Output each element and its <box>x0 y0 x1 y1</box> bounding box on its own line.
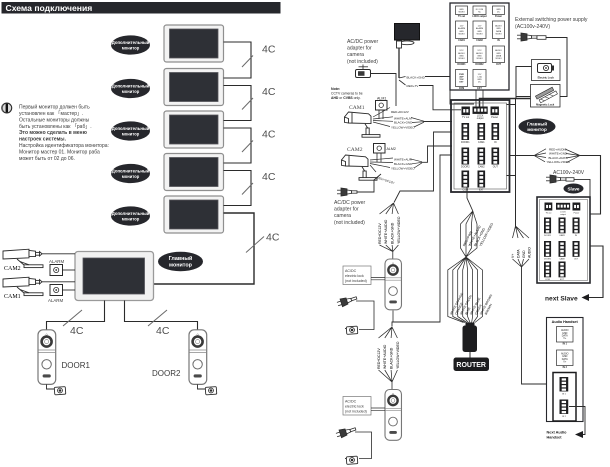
svg-text:RED+DC12V: RED+DC12V <box>377 348 381 369</box>
TV cable connector <box>397 41 402 78</box>
handset pinout IN 1 <box>557 327 574 346</box>
connector EXT (main box) <box>478 171 486 192</box>
svg-text:AUDIO: AUDIO <box>495 49 502 52</box>
svg-text:Это можно сделать в меню: Это можно сделать в меню <box>19 130 88 136</box>
label oval "Дополнительный монитор" 3 <box>111 121 150 140</box>
lock under DOOR2 <box>204 387 217 395</box>
svg-text:ALM1: ALM1 <box>377 97 386 101</box>
wire slave OUT to next slave arrow <box>589 246 603 298</box>
wire DOOR1 bus to middle door station 1 <box>394 132 452 203</box>
svg-text:AC/DC: AC/DC <box>345 269 357 273</box>
pinout row2: CAM1 / CAM2 / IN <box>456 21 468 42</box>
svg-text:RED+TV: RED+TV <box>407 84 419 88</box>
svg-text:Electric Lock: Electric Lock <box>538 76 555 80</box>
connector OUT (slave) <box>573 241 580 257</box>
svg-text:EXT: EXT <box>477 88 482 90</box>
svg-text:CAM1: CAM1 <box>4 294 21 300</box>
wire DOOR1 to lock <box>47 384 55 389</box>
svg-text:4C: 4C <box>262 44 276 56</box>
svg-text:(not included): (not included) <box>345 279 367 283</box>
svg-text:Монитор мастер 01. Монитор раб: Монитор мастер 01. Монитор раба <box>19 149 100 155</box>
svg-text:CAM2: CAM2 <box>4 266 21 272</box>
svg-text:IN 1: IN 1 <box>563 344 568 346</box>
camera CAM1 (left) <box>3 277 43 300</box>
wire EXT to audio handset (V+ DATA GND AUDIO fan) <box>511 226 532 267</box>
svg-text:BLACK+GND: BLACK+GND <box>394 162 413 166</box>
svg-text:WHITE+AUDIO: WHITE+AUDIO <box>384 219 388 244</box>
svg-text:CCTV cameras to be: CCTV cameras to be <box>331 92 363 96</box>
svg-text:RED+DC12V: RED+DC12V <box>391 110 409 114</box>
svg-text:настроек системы.: настроек системы. <box>19 137 67 143</box>
svg-text:ALM2: ALM2 <box>387 147 396 151</box>
wire plug to lock (door 1) <box>356 301 374 330</box>
text: AC/DC power adapter for camera (top) <box>347 39 378 65</box>
wire COM to router 4-wire fan <box>467 188 473 212</box>
wire main monitor to DOOR2 <box>125 301 198 330</box>
4C cable mark (main riser) <box>246 232 280 253</box>
wires pinout box to lock connector <box>476 90 483 107</box>
main monitor (left overview) <box>75 252 154 301</box>
electric lock box <box>532 60 561 81</box>
note text (russian instructions) <box>19 104 109 162</box>
middle door station 1 <box>385 259 401 310</box>
svg-text:Главный: Главный <box>169 255 193 262</box>
camera CAM1 (right half) <box>345 105 381 137</box>
wire monitor M2 to M3 <box>224 86 252 121</box>
wire door1 bottom jump <box>392 311 394 323</box>
svg-text:camera: camera <box>334 213 351 219</box>
svg-text:TV out: TV out <box>545 212 551 215</box>
TV monitor (TV out) <box>395 24 420 45</box>
svg-text:VIDEO: VIDEO <box>495 58 502 60</box>
electric lock note box (door 2) <box>343 397 371 416</box>
svg-text:ALARM: ALARM <box>458 27 465 30</box>
wire alarm2 to main monitor <box>63 289 76 291</box>
power plug (middle door 1) <box>336 294 357 308</box>
svg-text:VIDEO: VIDEO <box>476 33 483 35</box>
wire V+ bus down to handset <box>522 267 560 384</box>
svg-text:IN 2: IN 2 <box>563 367 568 369</box>
svg-text:VCC: VCC <box>459 50 464 52</box>
svg-text:GND: GND <box>496 28 501 30</box>
svg-text:ADP: ADP <box>459 76 464 79</box>
svg-text:4C: 4C <box>262 129 276 141</box>
additional monitor M3 <box>164 111 224 148</box>
Next Audio Handset label + arrow <box>547 431 584 440</box>
svg-text:adapter for: adapter for <box>334 207 359 213</box>
lock under DOOR1 <box>53 387 66 395</box>
text: External switching power supply <box>515 17 588 30</box>
next Slave label + arrow <box>545 294 589 303</box>
label oval "Главный монитор" (left) <box>158 252 203 271</box>
svg-text:BLACK+GND: BLACK+GND <box>407 75 426 79</box>
svg-text:TV out: TV out <box>458 15 465 18</box>
svg-text:YELLOW+VIDEO: YELLOW+VIDEO <box>391 167 415 171</box>
alarm box 2 (ALARM) <box>48 285 63 304</box>
svg-text:монитор: монитор <box>169 263 193 269</box>
label oval "Главный монитор" (right) <box>519 119 556 135</box>
svg-text:DC: DC <box>497 11 500 13</box>
svg-text:DOOR1: DOOR1 <box>62 361 91 370</box>
svg-text:electric lock: electric lock <box>345 405 364 409</box>
svg-text:VIDEO: VIDEO <box>476 58 483 60</box>
wire lock box to door 1 <box>371 278 385 280</box>
wire lock output to magnetic lock <box>480 99 531 108</box>
svg-text:ALARM: ALARM <box>48 298 63 303</box>
svg-text:(not included): (not included) <box>334 220 365 226</box>
svg-text:OUT: OUT <box>493 165 499 168</box>
svg-text:TV out: TV out <box>462 116 469 119</box>
4C cable mark 2 <box>242 86 276 110</box>
svg-text:AC100v-240V: AC100v-240V <box>553 170 585 176</box>
svg-text:BLACK+GND: BLACK+GND <box>391 222 395 244</box>
svg-text:DOOR1: DOOR1 <box>461 141 470 144</box>
pinout row1: TV out / LOCK output / Power <box>456 6 468 18</box>
svg-text:DATA: DATA <box>516 249 520 258</box>
svg-text:ALARM: ALARM <box>476 27 483 30</box>
4C cable mark 1 <box>242 44 276 68</box>
connector CAM2 (main box) <box>478 148 486 169</box>
wire plug to lock (door 2) <box>355 432 372 459</box>
wire CAM2 to main box <box>422 146 452 162</box>
svg-text:может быть от 02 до 06.: может быть от 02 до 06. <box>19 156 75 162</box>
svg-text:output: output <box>477 117 484 120</box>
svg-text:(AC100v-240V): (AC100v-240V) <box>515 24 550 30</box>
wire bundle to router <box>469 352 471 358</box>
svg-text:DOOR2: DOOR2 <box>461 165 470 168</box>
alarm box 1 (ALARM) <box>49 259 64 276</box>
svg-text:VCC: VCC <box>477 50 482 52</box>
connector Power (slave) <box>573 203 581 211</box>
wire OUT to slave with labels <box>509 147 601 214</box>
text: AC/DC power adapter for camera (second) <box>334 200 365 226</box>
svg-text:Slave: Slave <box>567 186 579 191</box>
svg-text:CAM1: CAM1 <box>478 141 485 144</box>
connector Power (main box) <box>491 107 499 120</box>
svg-text:ROUTER: ROUTER <box>456 362 486 369</box>
svg-text:V+: V+ <box>511 254 515 258</box>
label oval "Slave" <box>564 184 584 194</box>
connector CAM2 (slave) <box>559 241 566 257</box>
svg-text:External switching power suppl: External switching power supply <box>515 17 588 23</box>
wire branch to electric lock <box>516 67 532 99</box>
wire monitor M4 to M5 <box>224 171 252 206</box>
svg-text:COM: COM <box>459 88 464 90</box>
svg-text:4C: 4C <box>262 171 276 183</box>
wire monitor M5 to main monitor <box>154 213 254 284</box>
door station DOOR2 <box>152 330 207 385</box>
connector LOCK output (main box) <box>473 107 488 120</box>
pinout row3: DOOR1 / DOOR2 / OUT <box>456 46 468 66</box>
label oval "Дополнительный монитор" 1 <box>111 35 150 54</box>
svg-text:Power: Power <box>495 16 502 18</box>
connector LOCK output (slave) <box>556 203 570 210</box>
svg-text:COM: COM <box>545 279 550 281</box>
power plug (slave) <box>546 175 590 197</box>
connector COM (main box) <box>462 171 470 192</box>
handset pinout IN 2 <box>557 350 574 369</box>
connector CAM1 (main box) <box>478 123 486 144</box>
wire lock box to door 2 <box>371 408 385 410</box>
connector DOOR1 (slave) <box>544 218 551 234</box>
connector TV out (slave) <box>545 203 553 211</box>
connector CAM1 (slave) <box>559 218 566 234</box>
wire monitor M1 to M2 <box>224 42 252 78</box>
slave monitor connector box <box>537 197 590 283</box>
4C cable mark 4 <box>242 171 276 195</box>
main monitor connector box <box>451 100 510 192</box>
cable bundle (black cylinder) <box>463 323 478 353</box>
label oval "Дополнительный монитор" 5 <box>111 206 150 225</box>
svg-text:adapter for: adapter for <box>347 46 372 52</box>
wire DOOR2 to lock <box>198 384 206 389</box>
svg-text:Audio Handset: Audio Handset <box>552 320 579 324</box>
svg-text:DATA: DATA <box>496 54 502 57</box>
power plug (middle door 2) <box>335 425 356 439</box>
alarm box ALM2 <box>374 144 396 163</box>
svg-text:DOOR2: DOOR2 <box>475 64 484 66</box>
svg-text:CAM2: CAM2 <box>347 147 363 153</box>
connector EXT (slave) <box>559 262 566 278</box>
8 router wire color fan <box>448 257 483 323</box>
svg-text:ALARM: ALARM <box>49 259 64 264</box>
svg-text:CAM2: CAM2 <box>478 165 485 168</box>
CAM1 wire fan labels <box>373 108 424 130</box>
wire main monitor to DOOR1 <box>47 301 105 330</box>
svg-text:IN: IN <box>497 40 500 42</box>
svg-text:1.5A: 1.5A <box>477 76 482 79</box>
svg-text:Первый монитор должен быть: Первый монитор должен быть <box>19 104 90 111</box>
pinout row4: COM / EXT <box>456 70 468 91</box>
4C mark door1 <box>63 310 84 337</box>
CAM2 wire fan labels <box>370 158 422 185</box>
svg-text:VIDEO: VIDEO <box>495 33 502 35</box>
audio handset box <box>547 318 584 422</box>
middle door station 2 <box>385 390 401 441</box>
additional monitor M5 <box>164 196 224 233</box>
svg-text:AHD or CVBS only.: AHD or CVBS only. <box>331 96 361 100</box>
svg-text:AUDIO: AUDIO <box>527 247 531 258</box>
wire DOOR2 bus to middle door station 2 <box>392 155 452 327</box>
pinout legend box <box>450 3 509 90</box>
connector IN 2 (handset) <box>560 400 569 419</box>
svg-text:быть установлены как 「раб」.: быть установлены как 「раб」. <box>19 124 92 130</box>
svg-text:Power: Power <box>491 116 498 119</box>
wire CAM2 to main monitor <box>42 253 75 255</box>
svg-text:CAM2: CAM2 <box>476 39 483 42</box>
lock icon (door 2) <box>345 456 358 464</box>
svg-text:VIDEO: VIDEO <box>458 11 465 13</box>
svg-text:BLACK+GND: BLACK+GND <box>390 347 394 369</box>
power/data bus (right of main box) <box>507 99 516 227</box>
connector TV out (main box) <box>462 107 470 120</box>
electric lock note box (door 1) <box>343 266 371 285</box>
svg-text:CAM2: CAM2 <box>559 257 565 260</box>
svg-text:IN: IN <box>494 141 497 144</box>
svg-text:Magnetic Lock: Magnetic Lock <box>536 103 555 107</box>
camera CAM2 (right half) <box>342 147 378 180</box>
svg-text:4C: 4C <box>156 325 170 337</box>
wire CAM1 to main box <box>424 121 452 123</box>
additional monitor M1 <box>164 25 224 62</box>
power plug (camera adapter 1) <box>356 65 397 107</box>
svg-text:DOOR1: DOOR1 <box>544 235 552 237</box>
svg-text:YELLOW+VIDEO: YELLOW+VIDEO <box>396 341 400 369</box>
connector OUT (main box) <box>492 148 500 169</box>
svg-text:OUT: OUT <box>496 64 501 66</box>
svg-text:монитор: монитор <box>527 127 547 132</box>
svg-text:4C: 4C <box>262 86 276 98</box>
connector COM (slave) <box>544 262 551 278</box>
svg-text:BLACK+GND: BLACK+GND <box>394 121 413 125</box>
svg-text:CAM1: CAM1 <box>349 105 365 111</box>
svg-text:Power: Power <box>574 213 580 215</box>
svg-text:Настройка идентификатора монит: Настройка идентификатора монитора: <box>19 142 109 149</box>
svg-text:AC/DC: AC/DC <box>345 400 357 404</box>
alarm box ALM1 <box>376 97 388 120</box>
svg-text:Схема подключения: Схема подключения <box>6 3 93 13</box>
svg-text:DOOR2: DOOR2 <box>544 258 552 260</box>
svg-text:4C: 4C <box>70 325 84 337</box>
svg-text:YELLOW+VIDEO: YELLOW+VIDEO <box>391 125 415 129</box>
svg-text:GND: GND <box>522 250 526 258</box>
svg-text:CAM1: CAM1 <box>559 234 565 237</box>
additional monitor M2 <box>164 69 224 106</box>
svg-text:EXT: EXT <box>479 188 484 191</box>
svg-text:DC: DC <box>478 82 481 84</box>
4C cable mark 3 <box>242 129 276 153</box>
svg-text:Note:: Note: <box>331 87 340 91</box>
ROUTER label <box>454 358 490 372</box>
title bar "Схема подключения" <box>2 2 281 14</box>
connector DOOR1 (main box) <box>461 123 470 144</box>
svg-text:Next Audio: Next Audio <box>547 431 568 435</box>
wire alarm1 to main monitor <box>63 269 76 271</box>
svg-text:AC/DC power: AC/DC power <box>334 200 365 206</box>
door station DOOR1 <box>38 330 91 385</box>
svg-text:LOCK output: LOCK output <box>472 15 487 18</box>
handset connector sub-box <box>553 373 576 422</box>
svg-text:output: output <box>560 213 566 216</box>
text note: CCTV cameras AHD/CVBS <box>331 87 363 100</box>
svg-text:AC/DC power: AC/DC power <box>347 39 378 45</box>
note icon (circled bar) <box>2 103 12 113</box>
4C mark door2 <box>148 310 170 337</box>
svg-text:electric lock: electric lock <box>345 274 364 278</box>
connector IN (slave) <box>573 218 580 234</box>
svg-text:DOOR1: DOOR1 <box>457 64 466 66</box>
label oval "Дополнительный монитор" 2 <box>111 79 150 98</box>
svg-text:YELLOW+VIDEO: YELLOW+VIDEO <box>397 216 401 244</box>
lock icon (door 1) <box>345 326 358 334</box>
svg-text:CAM1: CAM1 <box>458 39 465 42</box>
svg-text:RED+DC12V: RED+DC12V <box>378 223 382 244</box>
label oval "Дополнительный монитор" 4 <box>111 164 150 183</box>
svg-text:WHITE+AUDIO: WHITE+AUDIO <box>383 344 387 369</box>
svg-text:VIDEO: VIDEO <box>458 33 465 35</box>
svg-text:(not included): (not included) <box>347 59 378 65</box>
connector DOOR2 (main box) <box>461 148 470 169</box>
connector DOOR2 (slave) <box>544 241 551 257</box>
wire fan to middle door 2 <box>377 327 400 382</box>
additional monitor M4 <box>164 154 224 191</box>
wire CAM1 to main monitor <box>42 281 75 283</box>
power plug (camera adapter 2) <box>337 174 381 196</box>
svg-text:DOOR2: DOOR2 <box>152 369 181 378</box>
wire label RED+TV <box>399 80 461 110</box>
svg-text:Главный: Главный <box>527 121 547 127</box>
camera CAM2 (left) <box>3 249 43 272</box>
svg-text:Остальные мониторы должны: Остальные мониторы должны <box>19 117 90 123</box>
wire fan to middle door 1 <box>378 203 401 252</box>
connector IN 1 (handset) <box>560 377 569 396</box>
wire IN2 to next audio handset <box>569 407 585 435</box>
svg-text:VIDEO: VIDEO <box>458 58 465 60</box>
wire label BLACK+GND (TV) <box>399 75 474 104</box>
svg-text:Handset: Handset <box>547 436 563 440</box>
connector IN (main box) <box>492 123 500 144</box>
svg-text:4C: 4C <box>266 232 280 244</box>
svg-text:(not included): (not included) <box>345 410 367 414</box>
svg-text:установлен как 「мастер」.: установлен как 「мастер」. <box>19 111 83 117</box>
wire monitor M3 to M4 <box>224 128 252 163</box>
power plug (external supply) <box>516 33 568 97</box>
svg-text:next Slave: next Slave <box>545 296 578 303</box>
svg-text:camera: camera <box>347 52 364 58</box>
magnetic lock box <box>531 85 561 108</box>
